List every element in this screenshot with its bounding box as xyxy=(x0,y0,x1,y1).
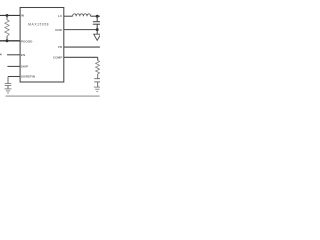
wire COMP corner down to compensation resistor xyxy=(97,57,99,60)
wire capacitor C_SS to ground xyxy=(7,86,9,89)
svg-text:SKIP: SKIP xyxy=(21,65,28,69)
cropped label fragment at EN wire (left edge) xyxy=(0,54,2,56)
wire SS/REFIN vertical down to soft-start capacitor xyxy=(7,77,9,84)
node junction dot on PGOOD wire xyxy=(6,39,9,42)
wire from IN node down to resistor R1 xyxy=(6,15,8,19)
capacitor C_OUT top plate xyxy=(93,21,100,23)
wire inductor L1 to VOUT node xyxy=(91,15,100,17)
wire PGOOD xyxy=(0,40,20,42)
node VOUT junction dot xyxy=(96,15,99,18)
wire FB (to VOUT sense, off right edge) xyxy=(64,46,100,48)
wire SKIP xyxy=(7,65,20,67)
wire R_COMP to capacitor C_COMP xyxy=(97,74,99,79)
ground symbol (C_SS) xyxy=(5,89,12,93)
wire COMP horizontal xyxy=(64,56,98,58)
svg-text:GND: GND xyxy=(55,28,63,32)
wire bottom rail xyxy=(6,95,100,97)
svg-text:EN: EN xyxy=(21,53,26,57)
wire IN (input rail to IN pin) xyxy=(0,14,20,16)
node junction dot on IN wire xyxy=(6,14,9,17)
svg-text:PGOOD: PGOOD xyxy=(21,40,33,44)
wire from resistor R1 to PGOOD node xyxy=(6,36,8,41)
inductor L1 (5 humps) xyxy=(73,14,91,16)
wire LX to inductor L1 xyxy=(64,15,73,17)
svg-text:LX: LX xyxy=(58,14,63,18)
IC U1 MAX15058 box xyxy=(20,8,64,83)
power ground symbol (open triangle) xyxy=(94,34,101,40)
svg-text:COMP: COMP xyxy=(53,56,62,60)
capacitor C_SS top plate xyxy=(5,83,12,85)
capacitor C_COMP bottom plate xyxy=(94,81,100,83)
wire VOUT node down to output capacitor xyxy=(96,16,98,21)
capacitor C_OUT bottom plate xyxy=(93,23,100,25)
svg-text:MAX15058: MAX15058 xyxy=(28,22,49,26)
node ground junction dot xyxy=(96,28,99,31)
wire C_OUT to GND net xyxy=(96,24,98,29)
resistor R_COMP (vertical zigzag) xyxy=(96,60,100,74)
svg-text:IN: IN xyxy=(21,14,25,18)
capacitor C_SS bottom plate xyxy=(5,85,12,87)
wire C_COMP to ground xyxy=(97,82,99,87)
wire EN xyxy=(7,54,20,56)
ground symbol (C_COMP) xyxy=(94,87,100,91)
wire ground node to power-ground triangle xyxy=(96,30,98,35)
wire SS/REFIN horizontal xyxy=(8,76,20,78)
resistor R1 PGOOD pullup (vertical zigzag) xyxy=(5,20,9,37)
capacitor C_COMP top plate xyxy=(94,78,100,80)
svg-text:SS/REFIN: SS/REFIN xyxy=(21,75,36,79)
svg-text:FB: FB xyxy=(58,45,63,49)
wire GND pin to ground node xyxy=(64,29,97,31)
